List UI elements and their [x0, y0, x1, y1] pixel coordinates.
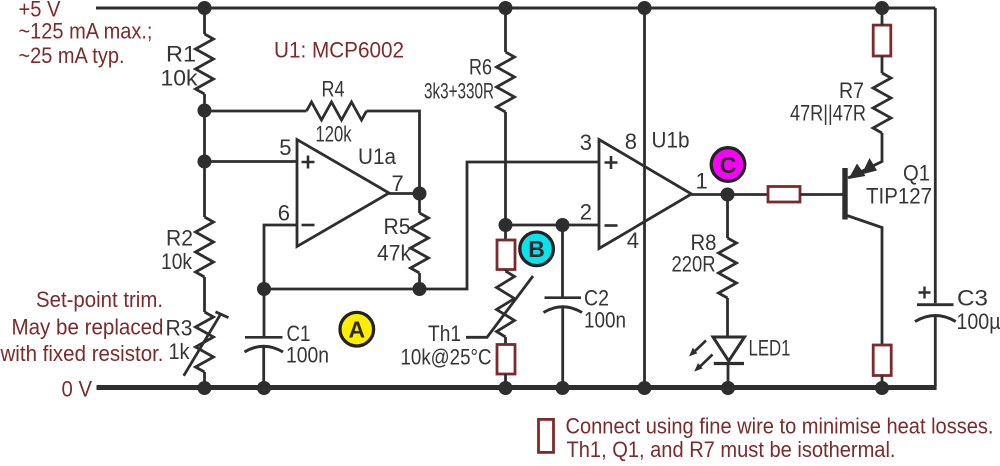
thermistor Th1	[497, 271, 515, 337]
fine-wire mark Q1 base	[768, 187, 800, 203]
svg-text:~125 mA max.;: ~125 mA max.;	[19, 19, 153, 44]
svg-text:0 V: 0 V	[62, 377, 93, 402]
wire R5 top lead	[418, 194, 421, 214]
op-amp U1b minus sign	[605, 224, 618, 227]
node LED1/0V junction	[721, 381, 735, 395]
node +5V/U1b pin8 junction	[638, 1, 652, 15]
op-amp U1a minus sign	[302, 224, 315, 227]
op-amp U1a	[297, 140, 389, 247]
op-amp U1b plus sign	[605, 156, 618, 169]
fine-wire mark Th1 top	[497, 240, 515, 270]
wire R8 top lead	[726, 195, 729, 239]
svg-text:47k: 47k	[377, 241, 412, 266]
wire C3 bottom lead	[934, 316, 937, 387]
wire C1 top lead	[263, 289, 266, 336]
wire R8 bottom lead	[726, 298, 729, 336]
op-amp U1a plus sign	[302, 156, 315, 169]
wire R2-R3 link	[203, 277, 206, 312]
wire R5 bottom lead	[418, 273, 421, 289]
wire C1 bottom lead	[262, 346, 265, 385]
wire R4 left lead	[205, 110, 307, 113]
svg-text:~25 mA typ.: ~25 mA typ.	[19, 43, 125, 68]
resistor R1	[196, 34, 214, 94]
node C2/0V junction	[556, 381, 570, 395]
node B marker	[520, 232, 554, 266]
wire Th1 upper link	[504, 270, 507, 272]
svg-text:LED1: LED1	[749, 336, 791, 361]
wire R4 right lead down to output node	[367, 111, 420, 194]
svg-text:3: 3	[580, 130, 592, 155]
svg-text:4: 4	[627, 228, 639, 253]
wire pin6 input	[264, 225, 297, 289]
svg-text:1: 1	[696, 169, 708, 194]
fine-wire mark Th1 bottom	[497, 345, 515, 375]
wire U1b output to Q1 base	[692, 193, 769, 196]
transistor Q1 collector	[847, 216, 882, 346]
node C2/pin2 junction	[556, 218, 570, 232]
capacitor C3 plus sign	[919, 287, 931, 299]
svg-text:220R: 220R	[672, 252, 716, 277]
svg-text:R3: R3	[166, 316, 193, 341]
wire top-rail right drop to C3	[934, 8, 937, 303]
svg-text:3k3+330R: 3k3+330R	[424, 79, 494, 104]
resistor R2	[196, 217, 214, 277]
resistor R7	[873, 73, 891, 133]
svg-text:1k: 1k	[169, 339, 191, 364]
wire U1a output	[389, 192, 420, 195]
svg-text:May be replaced: May be replaced	[12, 315, 164, 340]
node Q1/0V junction	[875, 381, 889, 395]
thermistor Th1 strike line	[466, 276, 533, 337]
node U1b power/0V junction	[638, 381, 652, 395]
wire R7 bottom to Q1 emitter	[848, 133, 882, 178]
capacitor C2	[544, 298, 583, 313]
trimmer R3 arrow T-bar	[216, 312, 229, 318]
node C marker	[711, 148, 745, 182]
node R1/R4 junction	[198, 104, 212, 118]
svg-text:Th1: Th1	[428, 321, 461, 346]
node R5/feedback junction	[413, 282, 427, 296]
svg-text:Q1: Q1	[903, 161, 930, 186]
svg-text:A: A	[348, 317, 365, 343]
svg-text:100n: 100n	[584, 308, 626, 333]
fine-wire mark R7 top	[873, 25, 891, 56]
svg-text:5: 5	[279, 135, 291, 160]
svg-text:8: 8	[625, 129, 637, 154]
wire Q1 collector bottom lead	[881, 376, 884, 386]
op-amp U1b	[599, 140, 692, 249]
transistor Q1 emitter arrow	[862, 158, 878, 175]
node +5V/R7 junction	[875, 1, 889, 15]
wire R3 bottom lead	[203, 372, 206, 386]
svg-text:R6: R6	[469, 55, 492, 80]
transistor Q1 base bar	[842, 168, 847, 220]
wire C2 top lead	[561, 225, 564, 297]
resistor R8	[719, 238, 737, 298]
svg-text:U1a: U1a	[358, 144, 397, 169]
fine-wire mark Q1 collector	[873, 345, 891, 376]
svg-text:R1: R1	[166, 42, 196, 67]
svg-text:U1b: U1b	[652, 128, 690, 153]
wire Th1 lower link	[504, 337, 507, 345]
wire U1b pin2 input	[506, 224, 600, 227]
node +5V/R1 junction	[198, 1, 212, 15]
wire 0V bottom rail	[97, 385, 937, 390]
svg-text:100µ: 100µ	[957, 309, 1000, 334]
resistor R3 (trimmer)	[196, 312, 214, 372]
resistor R4	[307, 102, 367, 120]
LED1 diode	[713, 337, 745, 364]
fine-wire mark legend symbol	[539, 419, 554, 452]
wire +5V top rail	[96, 7, 935, 10]
svg-text:R7: R7	[839, 78, 864, 103]
svg-text:R5: R5	[384, 214, 411, 239]
node divider pin5 tap junction	[198, 155, 212, 169]
wire feedback bottom run to U1b pin3	[264, 162, 599, 289]
svg-text:Th1, Q1, and R7 must be isothe: Th1, Q1, and R7 must be isothermal.	[567, 437, 896, 462]
svg-text:U1: MCP6002: U1: MCP6002	[274, 38, 404, 63]
wire R6 bottom lead	[504, 112, 507, 225]
wire U1b power rail pin8/pin4	[643, 8, 646, 385]
svg-text:R4: R4	[322, 77, 345, 102]
wire R1 top lead	[203, 8, 206, 34]
svg-text:TIP127: TIP127	[866, 184, 932, 209]
svg-text:Connect using fine wire to min: Connect using fine wire to minimise heat…	[566, 414, 994, 439]
node R6/Th1/pin2 junction	[499, 218, 513, 232]
wire Q1 base lead	[800, 193, 843, 196]
svg-text:B: B	[528, 236, 545, 262]
wire R1 bottom / divider column	[203, 94, 206, 217]
node A marker	[340, 312, 374, 346]
wire R6 top lead	[504, 8, 507, 52]
node feedback/C1 junction	[257, 282, 271, 296]
svg-text:C: C	[720, 152, 737, 178]
svg-text:with fixed resistor.: with fixed resistor.	[0, 341, 164, 366]
LED1 emission arrow lower	[694, 355, 712, 372]
svg-text:R2: R2	[166, 226, 193, 251]
wire pin5 input	[205, 160, 298, 163]
svg-text:10k: 10k	[161, 249, 193, 274]
svg-text:120k: 120k	[316, 122, 353, 147]
svg-text:10k@25°C: 10k@25°C	[401, 345, 492, 370]
wire Th1 top lead	[504, 225, 507, 240]
resistor R5	[411, 213, 429, 273]
node +5V/R6 junction	[499, 1, 513, 15]
svg-text:7: 7	[392, 171, 404, 196]
node Th1/0V junction	[499, 381, 513, 395]
wire LED1 cathode lead	[727, 364, 730, 386]
svg-text:6: 6	[278, 201, 290, 226]
svg-text:10k: 10k	[161, 66, 199, 91]
node C1/0V junction	[257, 381, 271, 395]
capacitor C1	[245, 337, 284, 352]
resistor R6	[497, 52, 515, 112]
svg-text:47R||47R: 47R||47R	[790, 101, 866, 126]
svg-text:2: 2	[580, 200, 592, 225]
node U1b output junction	[721, 188, 735, 202]
LED1 emission arrow upper	[689, 341, 706, 357]
node U1a output junction	[413, 187, 427, 201]
wire R7 upper link	[881, 8, 884, 73]
svg-text:100n: 100n	[286, 343, 329, 368]
wire Th1 bottom lead	[504, 374, 507, 385]
svg-text:Set-point trim.: Set-point trim.	[36, 287, 163, 312]
capacitor C3	[915, 305, 956, 322]
node R3/0V junction	[198, 381, 212, 395]
svg-text:C3: C3	[957, 286, 988, 311]
wire C2 bottom lead	[561, 307, 564, 386]
trimmer R3 arrow diagonal	[184, 314, 221, 376]
